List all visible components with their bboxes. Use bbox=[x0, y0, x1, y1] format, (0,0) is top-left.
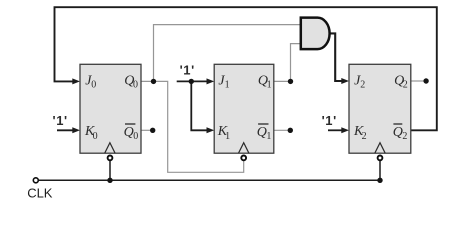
wire branch '1' to K1 bbox=[191, 81, 208, 130]
wire AND gate output to J2 bbox=[330, 33, 343, 81]
flip-flop FF0 body bbox=[80, 64, 141, 153]
svg-text:2: 2 bbox=[362, 131, 367, 142]
wire Q-bar2 feedback loop to J0 bbox=[55, 7, 437, 130]
wire Q-bar1 stub bbox=[274, 129, 291, 131]
clock bubble FF0 bbox=[108, 156, 113, 161]
svg-text:0: 0 bbox=[91, 79, 96, 90]
junction dot FF0 clock bbox=[107, 178, 112, 183]
arrowhead J0 input bbox=[72, 78, 80, 84]
clock bubble FF2 bbox=[378, 156, 383, 161]
svg-text:1: 1 bbox=[225, 79, 230, 90]
svg-text:Q: Q bbox=[257, 125, 267, 140]
clock edge triangle FF1 bbox=[239, 143, 249, 154]
svg-text:Q: Q bbox=[124, 125, 134, 140]
junction dot Q0 bbox=[151, 79, 156, 84]
svg-text:0: 0 bbox=[133, 79, 138, 90]
label Q-bar1 bbox=[257, 124, 272, 142]
wire Q2 stub bbox=[411, 80, 426, 82]
flip-flop FF2 body bbox=[349, 64, 411, 153]
label Q2 bbox=[394, 73, 408, 90]
terminal dot Q2 bbox=[423, 78, 428, 83]
junction dot Q1 bbox=[288, 79, 293, 84]
svg-text:1: 1 bbox=[266, 131, 271, 142]
flip-flop FF1 body bbox=[214, 64, 274, 153]
svg-text:0: 0 bbox=[133, 131, 138, 142]
svg-text:2: 2 bbox=[402, 131, 407, 142]
wire Q1 to AND gate lower input bbox=[274, 44, 302, 82]
junction dot FF2 clock bbox=[377, 178, 382, 183]
AND gate U1 bbox=[301, 18, 330, 50]
svg-text:Q: Q bbox=[393, 125, 403, 140]
wire CLK line bbox=[39, 179, 380, 181]
svg-text:2: 2 bbox=[360, 79, 365, 90]
junction dot '1' branch bbox=[189, 79, 194, 84]
wire FF0 clock drop bbox=[109, 161, 111, 180]
wire Q-bar0 stub bbox=[141, 129, 153, 131]
label K1 bbox=[217, 124, 230, 142]
wire FF2 clock drop bbox=[379, 161, 381, 180]
label J2 bbox=[354, 73, 365, 90]
CLK input terminal bbox=[33, 178, 38, 183]
label J0 bbox=[85, 73, 96, 90]
wire '1' to J1 bbox=[177, 80, 208, 82]
arrowhead J2 input bbox=[341, 78, 349, 84]
clock edge triangle FF0 bbox=[105, 143, 115, 154]
label Q1 bbox=[258, 73, 272, 90]
terminal dot Q-bar0 bbox=[150, 128, 155, 133]
wire Q0 to AND gate upper input bbox=[154, 25, 302, 82]
svg-text:0: 0 bbox=[93, 131, 98, 142]
svg-text:'1': '1' bbox=[180, 63, 195, 78]
svg-text:CLK: CLK bbox=[27, 186, 53, 201]
label Q-bar0 bbox=[124, 124, 139, 142]
label J1 bbox=[218, 73, 229, 90]
svg-text:1: 1 bbox=[267, 79, 272, 90]
label Q0 bbox=[124, 73, 138, 90]
arrowhead K0 input bbox=[72, 127, 80, 133]
label K2 bbox=[353, 124, 367, 142]
wire '1' to K2 bbox=[328, 129, 343, 131]
terminal dot Q-bar1 bbox=[288, 128, 293, 133]
arrowhead K2 input bbox=[341, 127, 349, 133]
svg-text:2: 2 bbox=[403, 79, 408, 90]
clock bubble FF1 bbox=[241, 156, 246, 161]
svg-text:1: 1 bbox=[225, 131, 230, 142]
arrowhead J1 input bbox=[207, 78, 215, 84]
svg-text:'1': '1' bbox=[322, 113, 337, 128]
wire '1' to K0 bbox=[57, 129, 74, 131]
clock edge triangle FF2 bbox=[375, 143, 385, 154]
label K0 bbox=[84, 124, 98, 142]
svg-text:'1': '1' bbox=[53, 113, 68, 128]
arrowhead K1 input bbox=[207, 127, 215, 133]
label Q-bar2 bbox=[393, 124, 408, 142]
wire Q0 to FF1 clock bbox=[141, 81, 244, 172]
